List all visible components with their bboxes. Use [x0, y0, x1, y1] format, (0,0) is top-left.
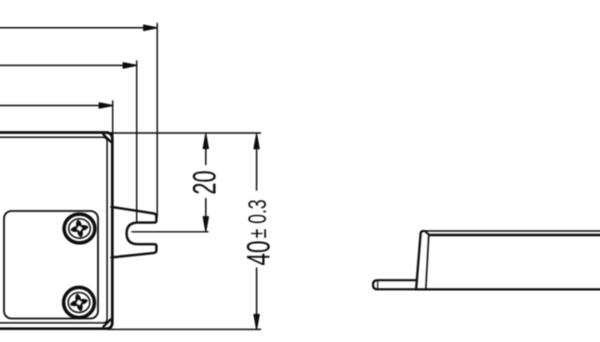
front view: inner mounting panel rounded rectangle: [4, 211, 98, 319]
screw S1 outer ring: [64, 214, 95, 243]
side view: mounting flange tab: [373, 280, 417, 289]
dimension text 40 +-0.3: [240, 199, 276, 265]
screw S2 phillips cross: [68, 291, 90, 313]
dimension 20: line with up/down arrows: [205, 145, 207, 165]
arrowhead D2: [123, 63, 137, 68]
dimension 40: line with up/down arrows: [256, 145, 258, 190]
arrowhead D3: [99, 103, 113, 108]
side view: flange end tangent line: [377, 281, 379, 290]
side view: top front edge (thick): [429, 234, 600, 236]
reference line: body bottom edge extended right: [108, 328, 261, 330]
screw S1 phillips cross: [69, 218, 90, 239]
arrowhead 20 up: [203, 134, 208, 149]
arrowhead 20 down: [203, 217, 208, 232]
extension line E1 (clip outer edge): [156, 24, 158, 217]
side view: wall outer edge: [416, 231, 423, 289]
screw S2 inner ring: [68, 293, 90, 313]
svg-text:± 0.3: ± 0.3: [243, 199, 272, 238]
side view: top face outline (thin): [424, 230, 600, 232]
dimension line D2 (middle, to clip slot): [0, 64, 124, 66]
reference line: body top edge extended right: [104, 132, 261, 134]
extension line E2 (clip slot edge): [136, 61, 138, 222]
screw S2 outer ring: [64, 287, 95, 317]
front view: spring clip on right edge: [112, 207, 157, 258]
dimension line D3 (lower, to body edge): [0, 105, 100, 107]
arrowhead 40 up: [254, 134, 259, 149]
dimension line D1 (top, to clip outer edge): [0, 27, 144, 29]
svg-text:40: 40: [240, 241, 276, 266]
arrowhead 40 down: [254, 315, 259, 330]
side view: bottom edge: [416, 288, 600, 290]
front view: top-right corner chamfer mark: [103, 135, 110, 142]
side view: wall inner edge: [426, 236, 429, 289]
svg-text:20: 20: [186, 170, 222, 194]
front view: body inner wall line: [0, 137, 107, 323]
front view: bottom-right corner chamfer mark: [103, 320, 110, 327]
screw S1 inner ring: [69, 219, 91, 238]
arrowhead D1: [144, 25, 158, 30]
front view: enclosure body outer outline: [0, 133, 112, 329]
reference line: clip slot centre extended right: [132, 231, 208, 233]
side view: top corner chamfer: [425, 231, 430, 235]
extension line E3 (body right edge): [112, 101, 114, 144]
